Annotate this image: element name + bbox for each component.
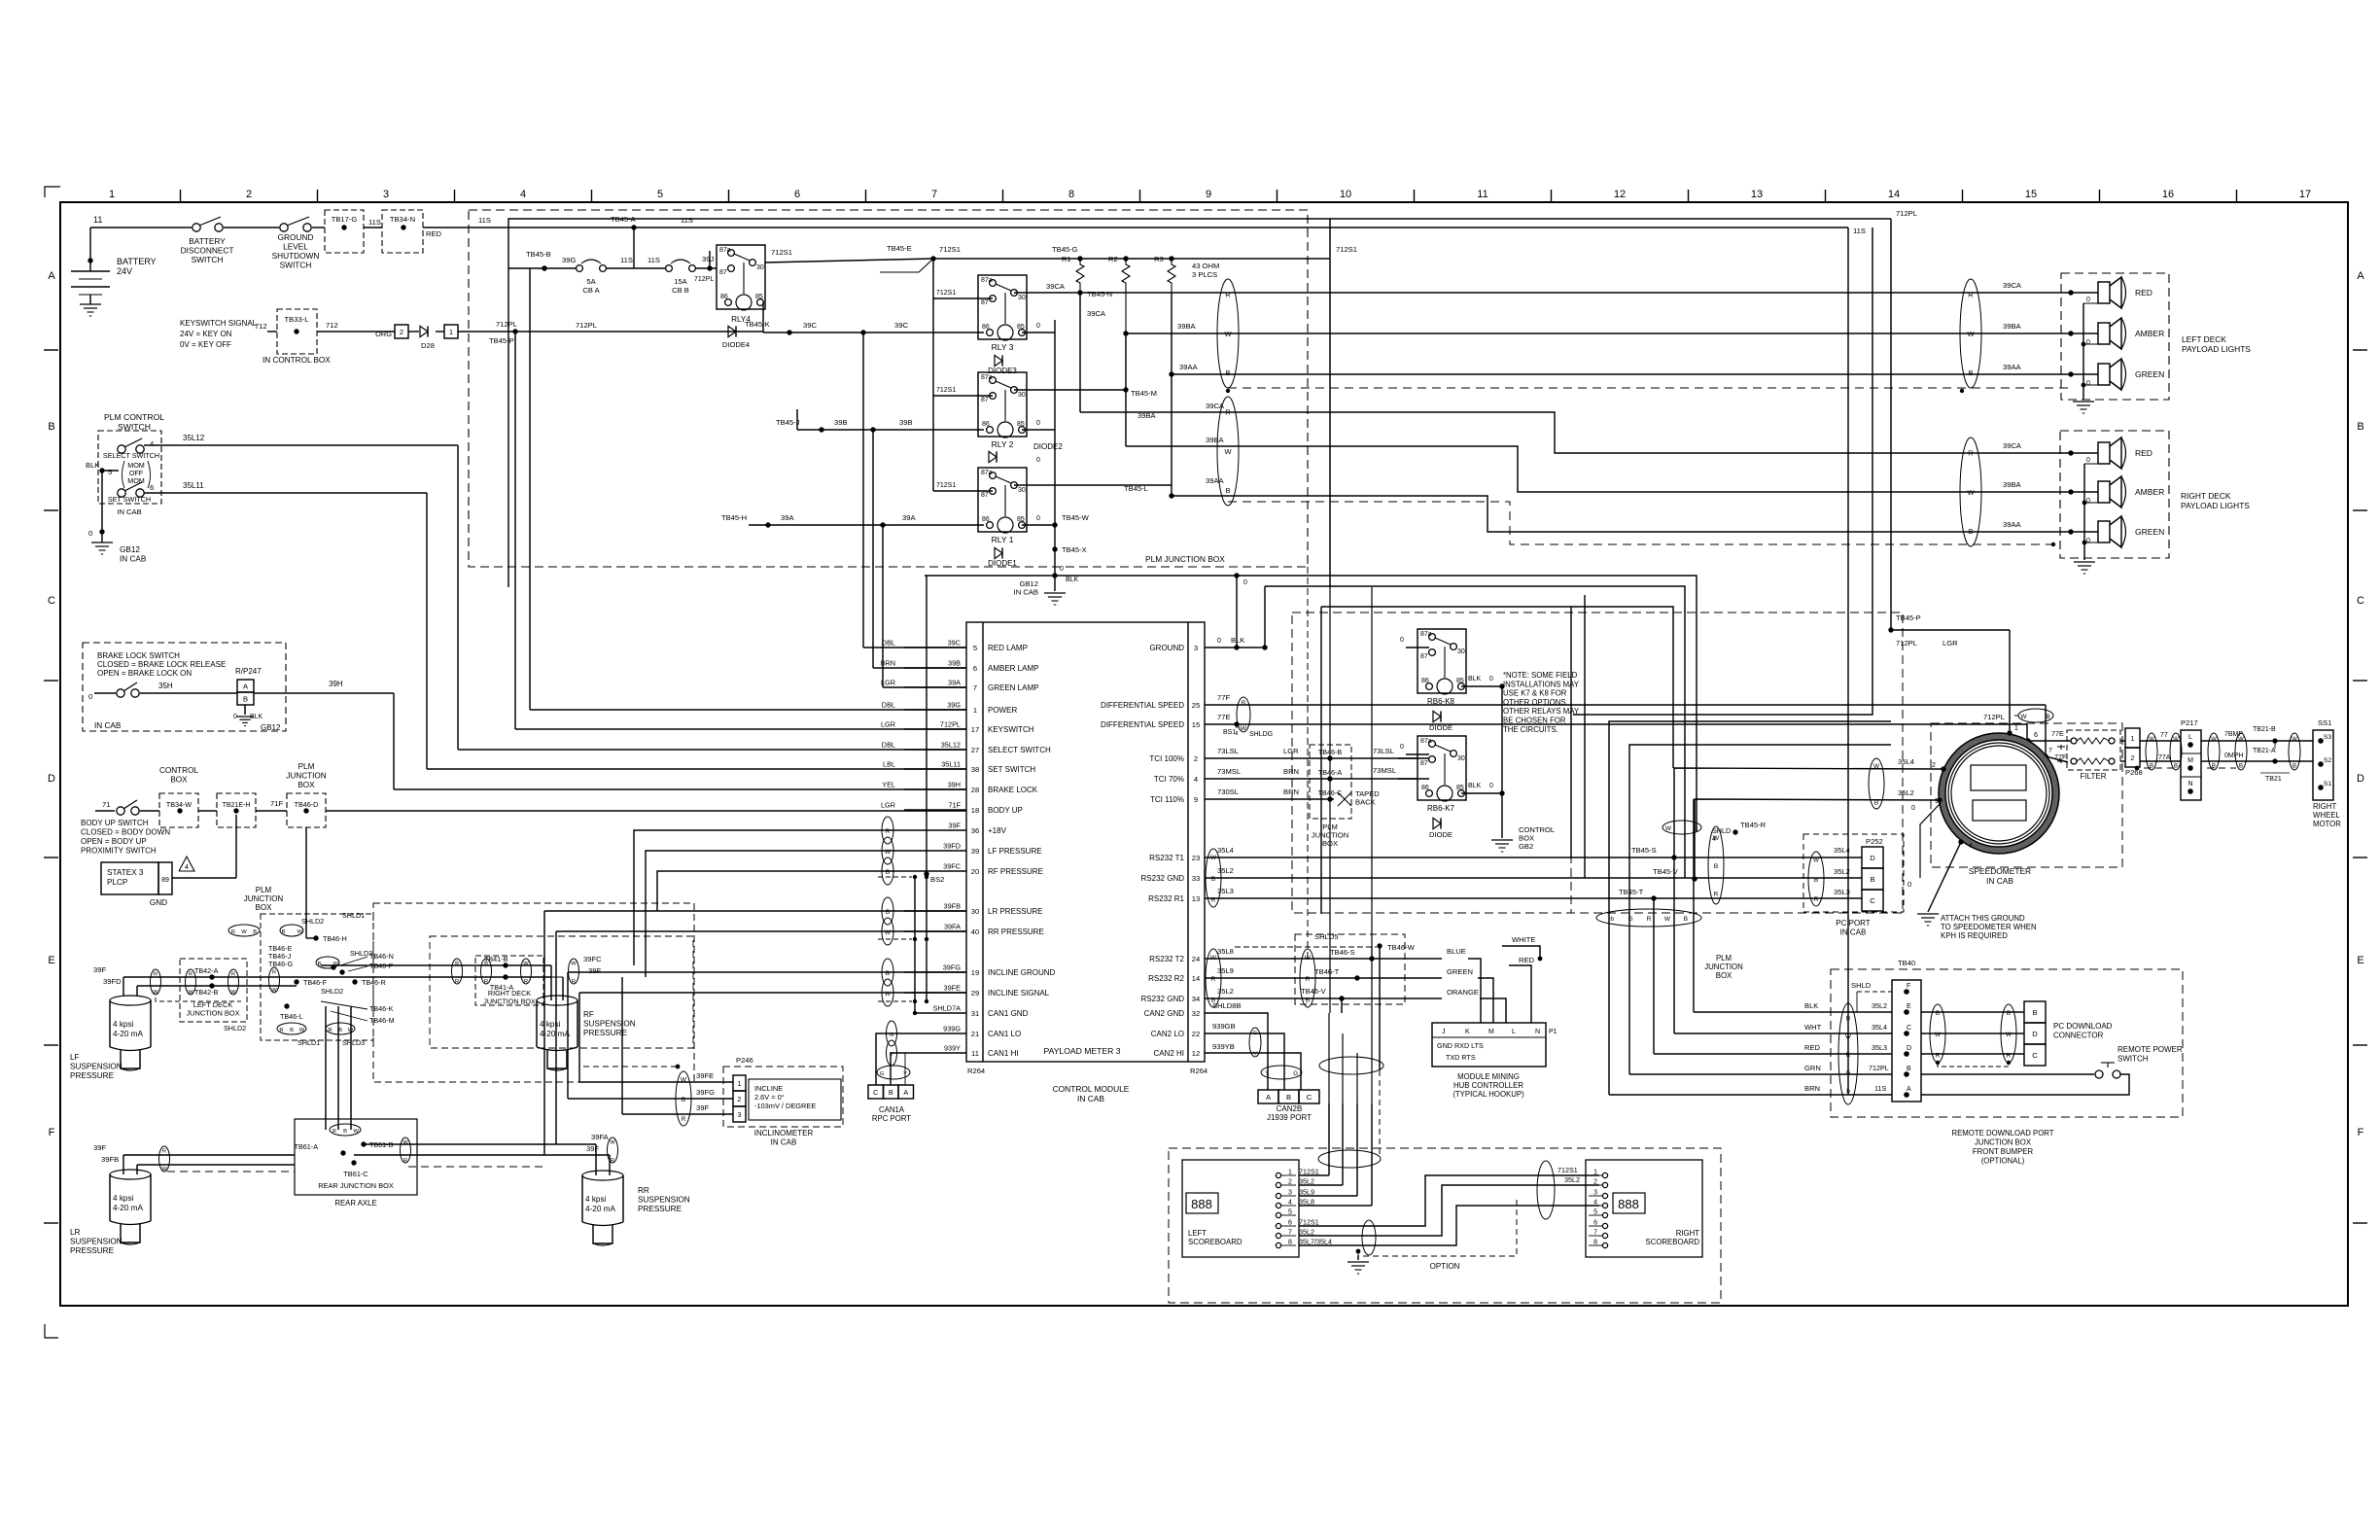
svg-text:BRAKE LOCK: BRAKE LOCK bbox=[988, 786, 1038, 794]
svg-text:GREEN: GREEN bbox=[1447, 967, 1473, 976]
svg-text:W: W bbox=[2020, 714, 2027, 720]
svg-text:712PL: 712PL bbox=[576, 321, 597, 330]
svg-text:4-20 mA: 4-20 mA bbox=[113, 1204, 143, 1212]
svg-text:DBL: DBL bbox=[882, 741, 895, 750]
svg-text:N: N bbox=[2187, 781, 2192, 787]
svg-text:LGR: LGR bbox=[1283, 747, 1299, 755]
svg-text:WHT: WHT bbox=[1804, 1023, 1822, 1032]
svg-text:R: R bbox=[611, 1158, 614, 1164]
svg-text:THE CIRCUITS.: THE CIRCUITS. bbox=[1503, 725, 1558, 734]
wire 39AA right deck bbox=[1172, 476, 2074, 535]
svg-text:W: W bbox=[1665, 825, 1672, 832]
svg-text:BS1: BS1 bbox=[1223, 729, 1236, 736]
speedometer dashed enclosure bbox=[1931, 723, 2122, 886]
svg-text:8: 8 bbox=[1068, 189, 1074, 200]
svg-text:39FB: 39FB bbox=[944, 902, 962, 911]
svg-text:39CA: 39CA bbox=[2003, 281, 2022, 290]
svg-text:K: K bbox=[1465, 1029, 1470, 1035]
svg-text:43 OHM: 43 OHM bbox=[1192, 262, 1219, 270]
svg-text:W: W bbox=[1935, 1032, 1942, 1038]
svg-text:R2: R2 bbox=[1108, 255, 1118, 263]
svg-text:8: 8 bbox=[1593, 1240, 1597, 1246]
svg-text:W: W bbox=[353, 1129, 359, 1135]
svg-text:39F: 39F bbox=[948, 822, 961, 830]
wire WHITE bbox=[1502, 935, 1542, 961]
svg-text:B: B bbox=[2239, 763, 2243, 769]
svg-text:SWITCH: SWITCH bbox=[2117, 1055, 2149, 1064]
svg-text:YEL: YEL bbox=[882, 781, 895, 789]
svg-text:POWER: POWER bbox=[988, 706, 1017, 715]
svg-text:30: 30 bbox=[756, 264, 764, 271]
svg-text:RF: RF bbox=[583, 1010, 594, 1019]
svg-text:35L12: 35L12 bbox=[183, 434, 205, 442]
svg-text:SPEEDOMETER: SPEEDOMETER bbox=[1969, 866, 2031, 876]
svg-text:RF PRESSURE: RF PRESSURE bbox=[988, 867, 1043, 876]
svg-text:B: B bbox=[2212, 763, 2216, 769]
node TB45-S bbox=[1631, 846, 1677, 860]
shield SHLD2 labels bbox=[156, 997, 246, 1032]
svg-text:BOX: BOX bbox=[1716, 971, 1732, 980]
svg-text:PAYLOAD METER 3: PAYLOAD METER 3 bbox=[1044, 1046, 1121, 1056]
svg-text:0: 0 bbox=[2086, 457, 2090, 464]
svg-text:TCI 100%: TCI 100% bbox=[1149, 754, 1184, 763]
circuit breaker CB A 5A bbox=[508, 250, 665, 295]
svg-text:M: M bbox=[2187, 757, 2193, 764]
connector oval left deck cable bbox=[1217, 279, 1239, 388]
svg-text:W: W bbox=[188, 990, 193, 996]
CAN1 wires to CAN1A port bbox=[876, 1013, 966, 1085]
svg-text:REMOTE DOWNLOAD PORT: REMOTE DOWNLOAD PORT bbox=[1951, 1129, 2053, 1137]
svg-text:LR: LR bbox=[70, 1228, 81, 1237]
svg-text:11S: 11S bbox=[368, 218, 381, 227]
svg-text:G: G bbox=[1293, 1070, 1298, 1077]
svg-text:21: 21 bbox=[971, 1030, 979, 1038]
svg-text:39C: 39C bbox=[948, 639, 961, 647]
svg-text:0: 0 bbox=[1907, 880, 1911, 889]
svg-text:WHEEL: WHEEL bbox=[2313, 811, 2340, 820]
svg-text:5: 5 bbox=[657, 189, 663, 200]
svg-text:BLK: BLK bbox=[1468, 783, 1482, 789]
svg-text:RIGHT: RIGHT bbox=[1676, 1229, 1699, 1238]
svg-text:712: 712 bbox=[255, 322, 267, 331]
left deck lamp ground link bbox=[2082, 303, 2084, 400]
svg-text:BOX: BOX bbox=[170, 776, 188, 785]
svg-text:B: B bbox=[1968, 527, 1973, 536]
svg-text:3: 3 bbox=[1593, 1190, 1597, 1197]
svg-text:D28: D28 bbox=[421, 341, 435, 350]
wire bundle verticals to PC port region bbox=[1571, 595, 1585, 878]
svg-text:RS232 T1: RS232 T1 bbox=[1149, 854, 1184, 862]
svg-text:SHLD2: SHLD2 bbox=[301, 917, 324, 926]
svg-text:B: B bbox=[1714, 863, 1718, 870]
scoreboard cross wires bbox=[1299, 1161, 1599, 1255]
svg-text:38: 38 bbox=[971, 765, 979, 774]
svg-text:11S: 11S bbox=[1874, 1084, 1886, 1093]
svg-text:CAN2B: CAN2B bbox=[1277, 1104, 1303, 1113]
svg-text:77F: 77F bbox=[1217, 693, 1230, 702]
svg-text:SCOREBOARD: SCOREBOARD bbox=[1188, 1238, 1242, 1246]
svg-text:GRN: GRN bbox=[1804, 1064, 1821, 1072]
connector oval right deck cable bbox=[1217, 397, 1239, 506]
svg-text:0: 0 bbox=[1489, 783, 1493, 789]
wire 71F bbox=[326, 810, 966, 812]
svg-text:M: M bbox=[1488, 1029, 1494, 1035]
svg-text:G: G bbox=[1253, 1031, 1258, 1036]
svg-text:JUNCTION BOX: JUNCTION BOX bbox=[1975, 1138, 2032, 1147]
svg-text:D: D bbox=[2357, 773, 2364, 785]
svg-text:39H: 39H bbox=[948, 781, 961, 789]
svg-text:F: F bbox=[1907, 983, 1910, 990]
svg-text:B: B bbox=[886, 869, 890, 876]
node TB45-A bbox=[611, 215, 637, 268]
svg-text:CLOSED = BRAKE LOCK RELEASE: CLOSED = BRAKE LOCK RELEASE bbox=[97, 660, 226, 669]
svg-text:7: 7 bbox=[2048, 748, 2052, 754]
svg-text:W: W bbox=[1664, 916, 1671, 923]
PLM junction TB46 nodes bbox=[228, 911, 395, 1047]
svg-text:C: C bbox=[1870, 896, 1875, 905]
svg-text:W: W bbox=[161, 1167, 167, 1172]
svg-text:712PL: 712PL bbox=[940, 720, 961, 729]
svg-text:BLK: BLK bbox=[1468, 676, 1482, 682]
svg-text:RED: RED bbox=[1519, 956, 1535, 964]
svg-text:BRAKE LOCK SWITCH: BRAKE LOCK SWITCH bbox=[97, 651, 180, 660]
svg-text:RS232 R1: RS232 R1 bbox=[1148, 894, 1184, 903]
svg-text:11: 11 bbox=[1477, 189, 1487, 200]
svg-text:TB45-W: TB45-W bbox=[1062, 513, 1090, 522]
svg-text:GB12: GB12 bbox=[261, 723, 281, 732]
svg-text:22: 22 bbox=[1192, 1030, 1200, 1038]
svg-text:11: 11 bbox=[971, 1049, 979, 1058]
svg-text:CB A: CB A bbox=[582, 286, 600, 295]
svg-text:TB46-D: TB46-D bbox=[295, 800, 319, 809]
lamp right green bbox=[2071, 516, 2164, 547]
connector P217 bbox=[2158, 718, 2201, 800]
svg-text:S2: S2 bbox=[2324, 757, 2332, 764]
svg-text:TB45-P: TB45-P bbox=[1896, 613, 1921, 622]
svg-text:39B: 39B bbox=[834, 418, 848, 427]
svg-text:12: 12 bbox=[1192, 1049, 1200, 1058]
battery B1 24V bbox=[71, 227, 157, 316]
wire 712PL keyswitch run bbox=[515, 321, 966, 729]
svg-text:30: 30 bbox=[1018, 295, 1026, 301]
wire 11S cable to TB40 A bbox=[1609, 721, 1891, 1095]
svg-text:B: B bbox=[1225, 486, 1230, 495]
lamp right amber bbox=[2071, 476, 2164, 507]
wheel speed wires 7BMP 0MPH bbox=[2201, 726, 2313, 783]
svg-text:TB42-B: TB42-B bbox=[194, 988, 219, 997]
svg-text:RLY 3: RLY 3 bbox=[992, 342, 1014, 352]
svg-text:0: 0 bbox=[1036, 323, 1040, 330]
svg-text:86: 86 bbox=[1421, 785, 1429, 791]
wire 712S1 drop right bbox=[1573, 227, 1872, 715]
svg-text:2: 2 bbox=[1288, 1179, 1292, 1186]
relay RLY2 bbox=[978, 372, 1027, 449]
svg-text:86: 86 bbox=[1421, 678, 1429, 684]
svg-text:R: R bbox=[1936, 1052, 1941, 1059]
svg-text:25: 25 bbox=[1192, 701, 1200, 710]
svg-text:TB61-A: TB61-A bbox=[295, 1142, 319, 1151]
svg-text:RED: RED bbox=[426, 229, 442, 238]
svg-text:BRN: BRN bbox=[1283, 767, 1299, 776]
left scoreboard bbox=[1182, 1160, 1299, 1257]
svg-text:73MSL: 73MSL bbox=[1373, 766, 1396, 775]
svg-text:IN CAB: IN CAB bbox=[117, 507, 141, 516]
svg-text:10: 10 bbox=[1340, 189, 1351, 200]
lamp left green bbox=[2071, 359, 2164, 390]
svg-text:RLY 2: RLY 2 bbox=[992, 439, 1014, 449]
svg-text:FRONT BUMPER: FRONT BUMPER bbox=[1973, 1147, 2034, 1156]
ground scoreboard bbox=[1347, 1262, 1369, 1274]
svg-text:TB45-B: TB45-B bbox=[526, 250, 551, 259]
svg-text:STATEX 3: STATEX 3 bbox=[107, 868, 144, 877]
svg-text:RB6-K8: RB6-K8 bbox=[1427, 697, 1455, 706]
svg-text:39A: 39A bbox=[948, 679, 961, 687]
svg-text:712PL: 712PL bbox=[1896, 639, 1917, 647]
svg-text:71F: 71F bbox=[270, 799, 283, 808]
svg-text:35L11: 35L11 bbox=[183, 481, 204, 490]
svg-text:JUNCTION: JUNCTION bbox=[1704, 962, 1742, 971]
svg-text:E: E bbox=[1907, 1003, 1911, 1010]
svg-text:87a: 87a bbox=[1420, 738, 1432, 745]
svg-text:P217: P217 bbox=[2181, 718, 2198, 727]
control module PAYLOAD METER 3 bbox=[966, 622, 1207, 1103]
svg-text:87: 87 bbox=[981, 299, 989, 306]
diode RB6-K8 bbox=[1429, 711, 1452, 732]
svg-text:39FD: 39FD bbox=[103, 977, 122, 986]
svg-text:L: L bbox=[2188, 734, 2192, 741]
svg-text:39FD: 39FD bbox=[943, 842, 961, 851]
svg-text:DISCONNECT: DISCONNECT bbox=[181, 246, 234, 256]
svg-text:77F: 77F bbox=[2054, 752, 2067, 761]
svg-text:39AA: 39AA bbox=[2003, 520, 2022, 529]
shield drain right deck dashed bbox=[1228, 502, 2055, 546]
svg-text:Y: Y bbox=[1265, 1070, 1269, 1077]
svg-text:SUSPENSION: SUSPENSION bbox=[70, 1238, 122, 1246]
svg-text:R264: R264 bbox=[967, 1067, 985, 1075]
svg-text:C: C bbox=[1907, 1025, 1911, 1032]
lamp left amber bbox=[2071, 318, 2164, 349]
svg-text:87a: 87a bbox=[1420, 631, 1432, 638]
svg-text:28: 28 bbox=[971, 786, 979, 794]
svg-text:B: B bbox=[886, 909, 890, 916]
svg-text:39FB: 39FB bbox=[101, 1155, 119, 1164]
svg-text:SHUTDOWN: SHUTDOWN bbox=[272, 251, 320, 261]
svg-text:B: B bbox=[1874, 800, 1878, 807]
svg-text:39AA: 39AA bbox=[1179, 363, 1199, 371]
cable bundle oval 5wire bbox=[1596, 909, 1701, 927]
svg-text:W: W bbox=[2211, 737, 2217, 743]
svg-text:77E: 77E bbox=[2051, 729, 2064, 738]
svg-text:BODY UP: BODY UP bbox=[988, 806, 1023, 815]
svg-text:R: R bbox=[272, 969, 276, 975]
svg-text:B: B bbox=[290, 1028, 294, 1033]
svg-text:0V = KEY OFF: 0V = KEY OFF bbox=[180, 340, 231, 349]
svg-text:RED: RED bbox=[1804, 1043, 1821, 1052]
connector P252 bbox=[1862, 847, 1883, 911]
speedometer pin 4 ground bbox=[1907, 839, 1973, 912]
svg-text:15: 15 bbox=[1192, 720, 1200, 729]
svg-text:SHLD7A: SHLD7A bbox=[933, 1004, 962, 1013]
wire 39BA right deck bbox=[1126, 436, 2074, 495]
svg-text:R: R bbox=[328, 1028, 332, 1033]
svg-text:AMBER: AMBER bbox=[2135, 487, 2164, 497]
svg-text:4: 4 bbox=[185, 864, 189, 871]
svg-text:30: 30 bbox=[1457, 648, 1465, 655]
svg-text:W: W bbox=[1224, 447, 1232, 456]
svg-text:R3: R3 bbox=[1154, 255, 1164, 263]
wire 11 bbox=[90, 215, 192, 227]
svg-text:TB40: TB40 bbox=[1898, 959, 1915, 967]
svg-text:C: C bbox=[48, 595, 55, 607]
svg-text:712PL: 712PL bbox=[496, 320, 517, 329]
svg-text:15: 15 bbox=[2025, 189, 2037, 200]
remote download port dashed enclosure bbox=[1831, 969, 2183, 1166]
diode RB6-K7 bbox=[1429, 818, 1452, 839]
ground speedometer bbox=[1917, 914, 2037, 940]
PLM junction box mid-left dashed bbox=[244, 886, 373, 1040]
svg-text:ORANGE: ORANGE bbox=[1447, 988, 1479, 997]
svg-text:CAN1 HI: CAN1 HI bbox=[988, 1049, 1019, 1058]
TCI wires 73LSL 73MSL 730SL bbox=[1205, 747, 1417, 799]
STATEX 3 PLCP bbox=[101, 815, 236, 907]
svg-text:R: R bbox=[231, 971, 235, 977]
svg-text:24V = KEY ON: 24V = KEY ON bbox=[180, 330, 232, 338]
svg-text:86: 86 bbox=[982, 516, 990, 523]
relay RLY3 bbox=[978, 275, 1027, 375]
right scoreboard pins bbox=[1557, 1166, 1608, 1248]
svg-text:39BA: 39BA bbox=[2003, 480, 2022, 489]
svg-text:SHLD1: SHLD1 bbox=[297, 1038, 320, 1047]
svg-text:39G: 39G bbox=[562, 256, 576, 264]
svg-text:7: 7 bbox=[1593, 1230, 1597, 1237]
svg-text:R: R bbox=[1211, 976, 1216, 983]
svg-text:35L4: 35L4 bbox=[1872, 1023, 1887, 1032]
svg-text:85: 85 bbox=[1456, 785, 1464, 791]
svg-text:TB46-H: TB46-H bbox=[323, 934, 347, 943]
svg-text:4: 4 bbox=[1194, 775, 1198, 784]
svg-text:TB34-N: TB34-N bbox=[390, 215, 415, 224]
svg-text:TB45-T: TB45-T bbox=[1619, 888, 1644, 896]
svg-text:4 kpsi: 4 kpsi bbox=[113, 1020, 134, 1029]
svg-text:39FG: 39FG bbox=[696, 1088, 715, 1097]
svg-text:SET SWITCH: SET SWITCH bbox=[988, 765, 1035, 774]
svg-text:0: 0 bbox=[2086, 339, 2090, 346]
diode DIODE2 bbox=[989, 442, 1063, 463]
svg-text:G: G bbox=[880, 1071, 885, 1077]
svg-text:73LSL: 73LSL bbox=[1373, 747, 1394, 755]
svg-text:PRESSURE: PRESSURE bbox=[638, 1205, 682, 1213]
svg-text:39C: 39C bbox=[803, 321, 817, 330]
dashed enclosure control box GB2 bbox=[1292, 612, 1903, 913]
svg-text:N: N bbox=[1535, 1029, 1540, 1035]
svg-text:0: 0 bbox=[1036, 420, 1040, 427]
svg-text:CAN2 GND: CAN2 GND bbox=[1144, 1009, 1185, 1018]
svg-text:R: R bbox=[279, 1028, 283, 1033]
svg-text:11S: 11S bbox=[478, 216, 491, 225]
svg-text:888: 888 bbox=[1191, 1197, 1212, 1211]
svg-text:LEVEL: LEVEL bbox=[283, 242, 308, 252]
svg-text:39F: 39F bbox=[696, 1103, 709, 1112]
left pin short wires bbox=[530, 265, 966, 710]
svg-text:0: 0 bbox=[1036, 457, 1040, 464]
svg-text:SHLD: SHLD bbox=[1851, 981, 1872, 990]
svg-text:BS2: BS2 bbox=[930, 875, 944, 884]
svg-text:35L2: 35L2 bbox=[1299, 1228, 1314, 1237]
svg-text:1: 1 bbox=[2131, 736, 2135, 743]
svg-text:11: 11 bbox=[93, 215, 102, 225]
svg-text:AMBER LAMP: AMBER LAMP bbox=[988, 664, 1038, 673]
svg-text:29: 29 bbox=[971, 989, 979, 997]
svg-text:R: R bbox=[524, 979, 528, 985]
svg-text:39G: 39G bbox=[947, 701, 961, 710]
svg-text:MOTOR: MOTOR bbox=[2313, 820, 2341, 828]
resistor R1 bbox=[1052, 245, 1084, 293]
svg-text:B: B bbox=[2292, 763, 2296, 769]
wires 39FC 39F right deck bbox=[321, 955, 602, 1000]
svg-text:CAN2 LO: CAN2 LO bbox=[1151, 1030, 1184, 1038]
svg-text:SHLD2: SHLD2 bbox=[321, 987, 343, 996]
svg-text:TB46-G: TB46-G bbox=[268, 960, 294, 968]
wire 11S top bus bbox=[423, 216, 1866, 235]
speedometer pins 2 and 9 35L4 35L2 bbox=[1674, 757, 1946, 879]
RR suspension pressure sensor bbox=[582, 1171, 690, 1245]
LR suspension pressure sensor bbox=[70, 1170, 151, 1255]
svg-text:PRESSURE: PRESSURE bbox=[583, 1029, 628, 1037]
svg-text:32: 32 bbox=[1192, 1009, 1200, 1018]
svg-text:39AA: 39AA bbox=[1206, 476, 1225, 485]
wire 35L4 to TB40 bbox=[1674, 857, 1892, 1033]
svg-text:F: F bbox=[2358, 1127, 2364, 1138]
svg-text:1: 1 bbox=[109, 189, 115, 200]
wire 35L12 bbox=[144, 434, 966, 750]
wire bundle relay area to right bbox=[925, 576, 1697, 914]
svg-text:P252: P252 bbox=[1866, 837, 1883, 846]
svg-text:PLM: PLM bbox=[1716, 954, 1732, 962]
svg-text:4-20 mA: 4-20 mA bbox=[113, 1030, 143, 1038]
terminal strip TB40 bbox=[1851, 959, 1921, 1102]
svg-text:R: R bbox=[1968, 448, 1974, 457]
svg-text:39FC: 39FC bbox=[943, 862, 961, 871]
wire 931 stub bbox=[904, 1053, 906, 1085]
svg-text:OPTION: OPTION bbox=[1430, 1262, 1460, 1271]
svg-text:SHLD5: SHLD5 bbox=[1314, 932, 1338, 941]
svg-text:31: 31 bbox=[971, 1009, 979, 1018]
control module left pin labels bbox=[971, 644, 1056, 1058]
big dashed enclosure lower mid bbox=[373, 903, 694, 1082]
connector P268 bbox=[2120, 728, 2181, 777]
svg-text:TB45-J: TB45-J bbox=[776, 418, 800, 427]
svg-text:W: W bbox=[230, 990, 236, 996]
svg-text:TB21: TB21 bbox=[2265, 776, 2282, 783]
svg-text:DIFFERENTIAL SPEED: DIFFERENTIAL SPEED bbox=[1101, 720, 1184, 729]
svg-text:30: 30 bbox=[1018, 392, 1026, 399]
shield drain bus BS2 bbox=[878, 576, 928, 1015]
svg-text:B: B bbox=[1684, 916, 1688, 923]
circuit breaker CB B 15A bbox=[666, 255, 717, 295]
PLM junction box dashed boundary top bbox=[469, 210, 1308, 567]
cable oval hub drop bbox=[1319, 1057, 1383, 1074]
svg-text:2: 2 bbox=[738, 1097, 742, 1103]
svg-text:RPC PORT: RPC PORT bbox=[872, 1114, 911, 1123]
svg-text:-103mV / DEGREE: -103mV / DEGREE bbox=[754, 1102, 816, 1110]
svg-text:939GB: 939GB bbox=[1212, 1022, 1236, 1031]
svg-text:IN CAB: IN CAB bbox=[94, 721, 122, 730]
ground GB12 relay bank bbox=[1044, 573, 1066, 605]
svg-text:712S1: 712S1 bbox=[1557, 1166, 1578, 1174]
svg-text:39AA: 39AA bbox=[2003, 363, 2022, 371]
svg-text:CONNECTOR: CONNECTOR bbox=[2053, 1032, 2104, 1040]
svg-text:11S: 11S bbox=[647, 256, 660, 264]
